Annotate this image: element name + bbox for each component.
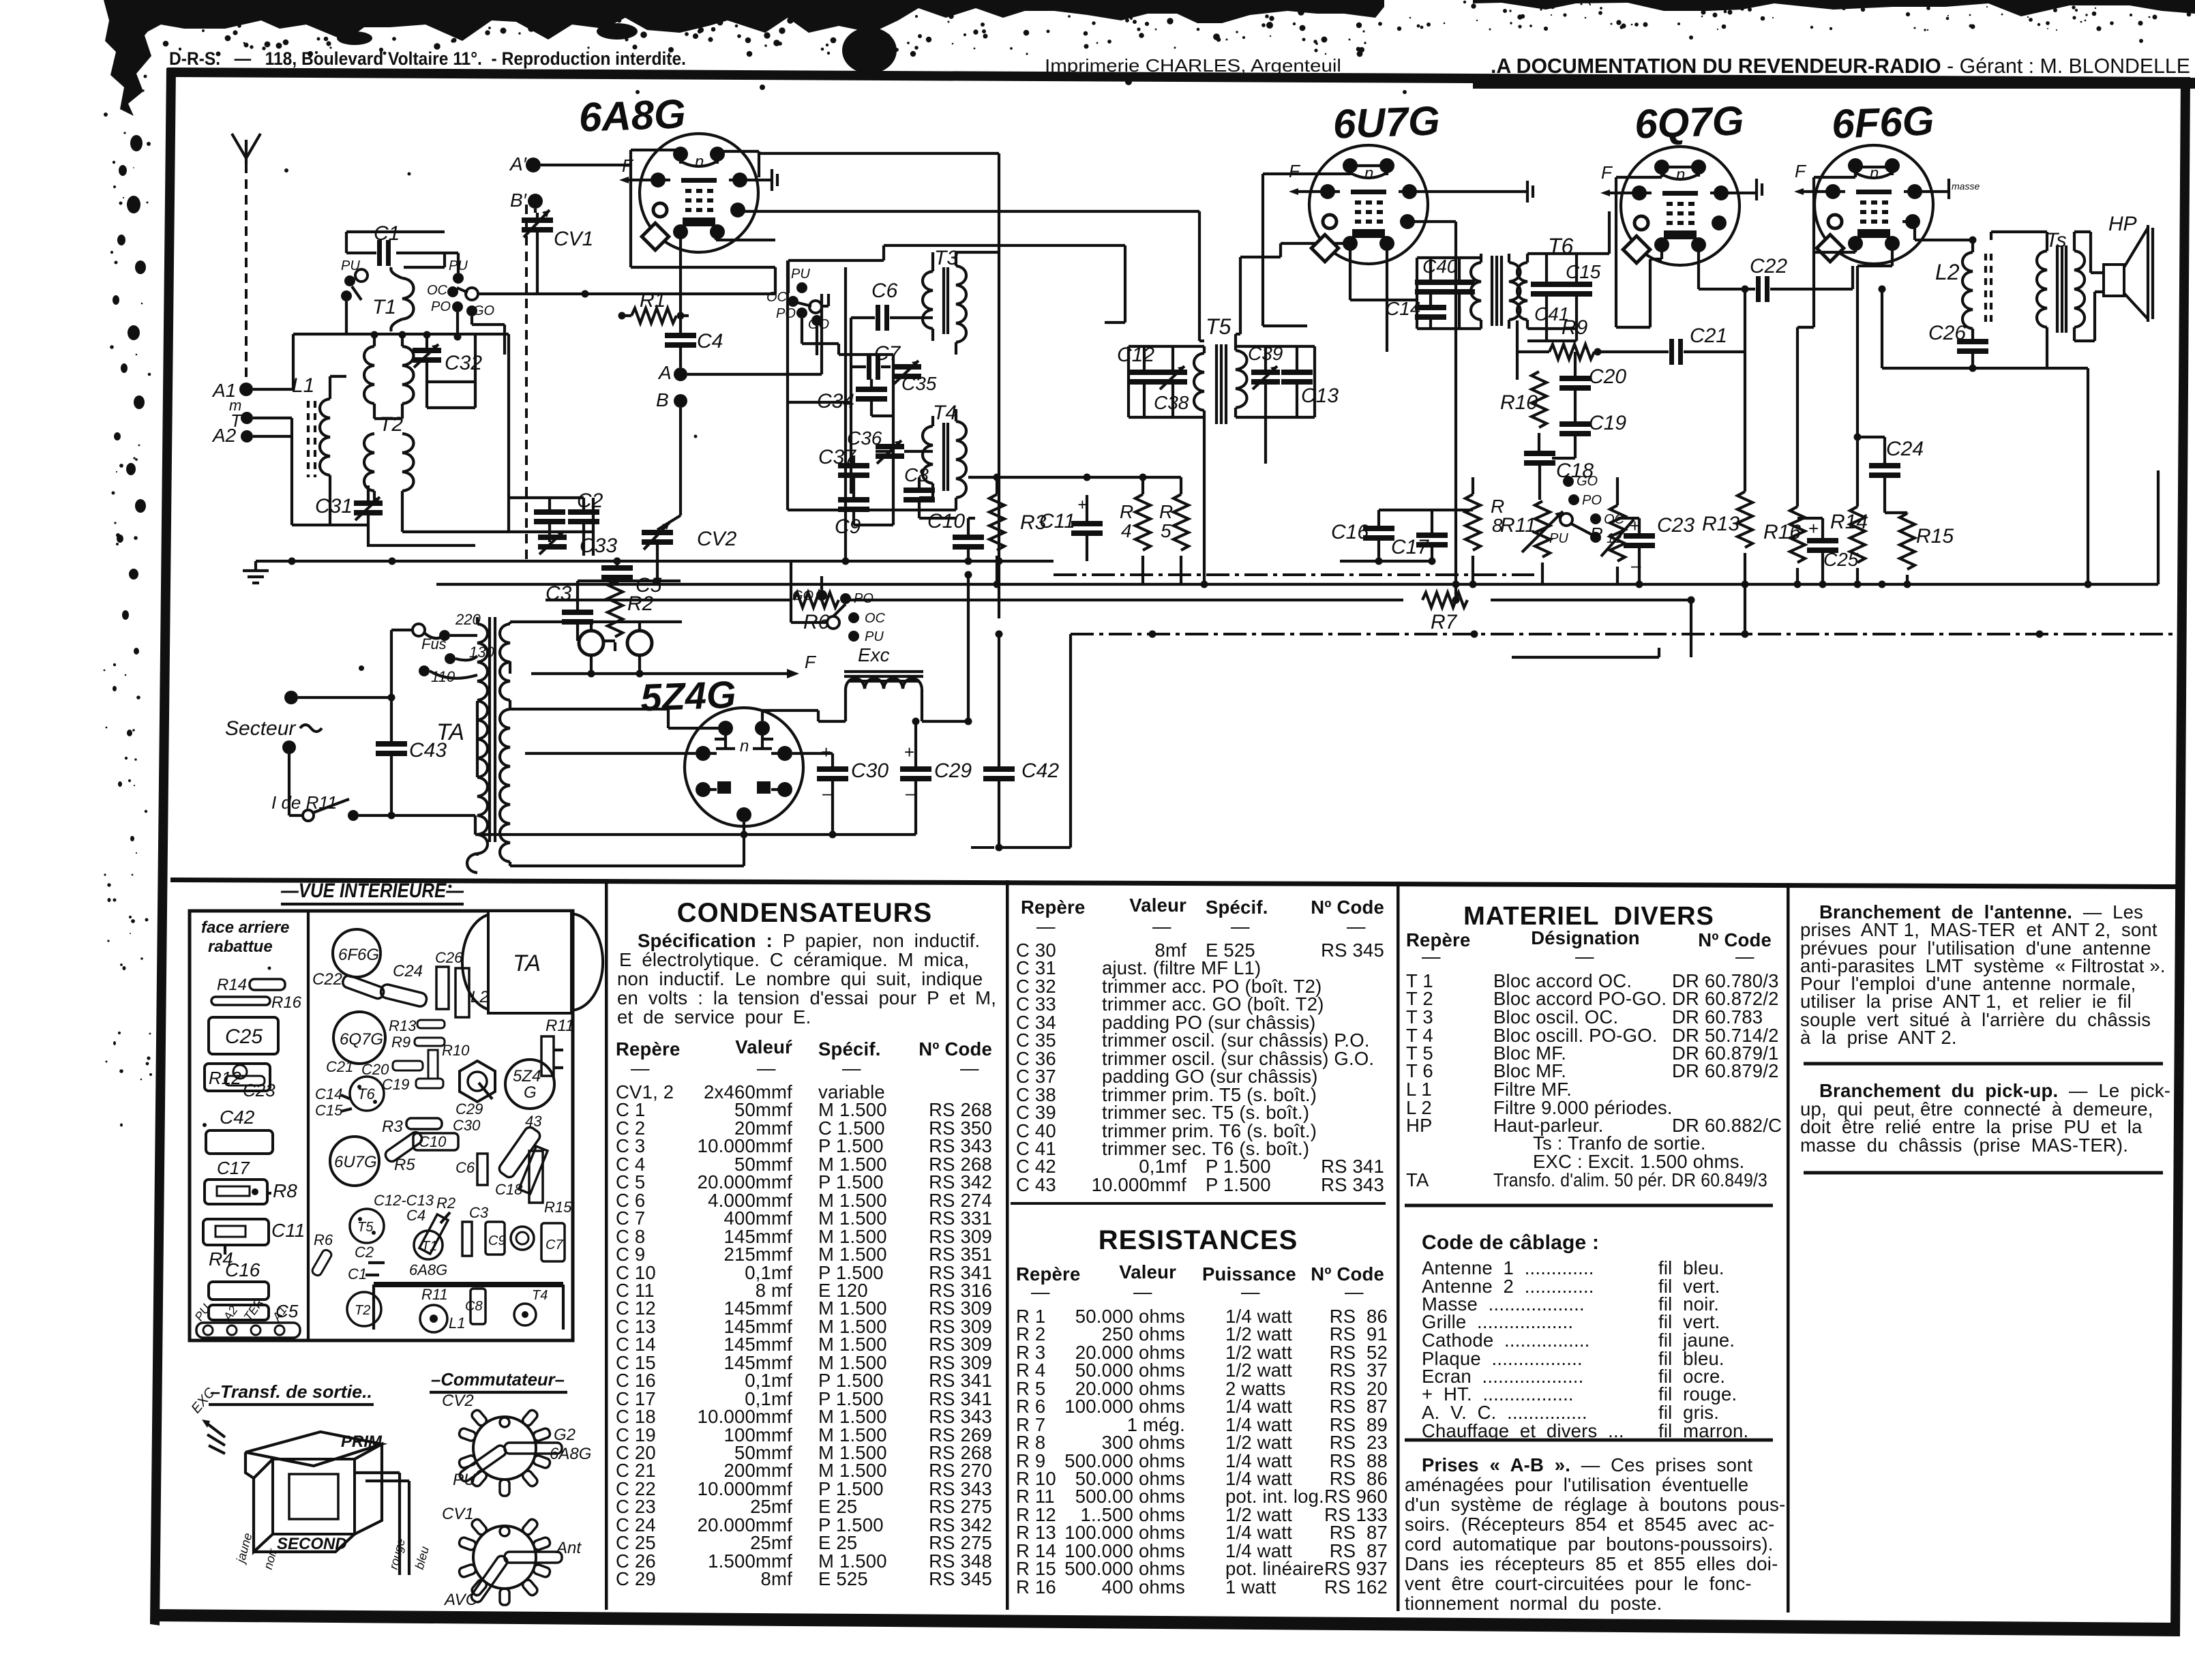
chassis C2 C1 — [348, 1244, 385, 1282]
svg-text:—: — — [757, 1057, 776, 1079]
svg-text:C24: C24 — [393, 962, 423, 980]
wire A1 to tuner — [253, 334, 355, 389]
svg-text:C2: C2 — [355, 1244, 374, 1261]
table C30-C43 — [1011, 895, 1388, 1597]
svg-text:—: — — [1347, 916, 1366, 937]
MF transformer T6 — [1471, 234, 1574, 329]
capacitor C1 — [346, 222, 445, 267]
transformer T1 — [372, 267, 414, 331]
bottom tie wires — [475, 833, 916, 836]
tube 5Z4G rectifier — [640, 673, 803, 826]
dash-dot HT rail lower — [1071, 633, 2175, 635]
svg-text:C8: C8 — [465, 1299, 483, 1314]
svg-text:Dans ies récepteurs 85 et: Dans ies récepteurs 85 et 855 elles doi- — [1405, 1553, 1778, 1574]
resistor R10 — [1500, 372, 1547, 453]
terminal B — [656, 389, 687, 410]
svg-text:R6: R6 — [314, 1231, 333, 1248]
capacitor C7 — [851, 342, 901, 380]
svg-text:AVC: AVC — [443, 1591, 478, 1609]
svg-text:vent être court-circuitées: vent être court-circuitées pour le fonc- — [1405, 1573, 1752, 1594]
resistor R1 — [618, 289, 689, 323]
svg-text:C 43: C 43 — [1016, 1174, 1056, 1195]
chassis T2 — [347, 1292, 381, 1326]
svg-text:C11: C11 — [271, 1220, 305, 1241]
resistor R5 — [1159, 477, 1189, 584]
wire top y225 to C5 drop — [759, 153, 999, 618]
chassis C22 — [312, 970, 385, 1000]
svg-text:C9: C9 — [488, 1233, 506, 1248]
wire L1 top tie — [318, 376, 368, 525]
svg-text:R 16: R 16 — [1016, 1576, 1056, 1597]
svg-text:43: 43 — [525, 1113, 542, 1130]
capacitor C8 — [904, 464, 935, 518]
svg-text:DR 60.879/2: DR 60.879/2 — [1672, 1060, 1779, 1081]
svg-text:10.000mmf: 10.000mmf — [1092, 1174, 1187, 1195]
svg-text:C30: C30 — [453, 1117, 481, 1134]
svg-text:–Commutateur–: –Commutateur– — [431, 1369, 565, 1390]
capacitor C2 — [534, 490, 603, 524]
svg-text:F: F — [1289, 161, 1301, 181]
svg-text:E 525: E 525 — [818, 1568, 868, 1589]
rear panel C16 — [209, 1259, 269, 1300]
transformer T3 — [923, 247, 966, 355]
chassis L2 — [456, 968, 489, 1017]
svg-text:TA: TA — [436, 719, 464, 745]
svg-text:—: — — [1735, 946, 1754, 967]
chassis C10 — [413, 1133, 458, 1150]
svg-text:C19: C19 — [382, 1076, 409, 1093]
title Commutateur — [430, 1369, 567, 1392]
svg-text:CV1: CV1 — [442, 1505, 474, 1523]
wires right bus — [1794, 581, 1802, 588]
svg-text:R11: R11 — [546, 1017, 574, 1035]
capacitor C40 — [1415, 256, 1475, 295]
output transformer Ts — [2037, 229, 2085, 368]
svg-text:OC: OC — [766, 290, 788, 305]
svg-text:6Q7G: 6Q7G — [1634, 97, 1744, 147]
svg-text:OC: OC — [865, 611, 886, 626]
svg-text:GO: GO — [1577, 474, 1598, 489]
trimmer C35 — [893, 361, 937, 394]
tube 6A8G — [578, 91, 758, 252]
svg-text:6F6G: 6F6G — [338, 946, 379, 964]
svg-text:R8: R8 — [273, 1180, 297, 1201]
svg-text:C16: C16 — [225, 1259, 260, 1280]
wires TA to 5Z4G — [510, 709, 744, 866]
right side vertical to bus — [1534, 368, 2158, 584]
loud speaker HP — [2074, 213, 2153, 341]
svg-text:—: — — [1036, 916, 1056, 937]
chassis R13 R9 — [389, 1017, 445, 1051]
svg-text:d'un système de réglage à: d'un système de réglage à boutons pous- — [1405, 1494, 1785, 1515]
title VUE INTERIEURE — [280, 880, 464, 904]
trimmer C31 — [315, 485, 475, 545]
chassis C29 C30 hex — [453, 1061, 495, 1134]
svg-text:R10: R10 — [442, 1042, 470, 1059]
capacitor C24 — [1854, 434, 1924, 513]
svg-text:G: G — [524, 1083, 537, 1102]
chassis R3 — [382, 1117, 442, 1136]
capacitor C9 — [835, 488, 893, 538]
svg-text:G2: G2 — [554, 1426, 576, 1444]
svg-text:P 1.500: P 1.500 — [1206, 1174, 1271, 1195]
table MATERIEL DIVERS — [1405, 902, 1785, 1614]
svg-text:PO: PO — [854, 591, 873, 606]
svg-text:E électrolytique. C céramique.: E électrolytique. C céramique. M mica, — [619, 949, 969, 970]
svg-text:—: — — [1345, 1281, 1364, 1302]
svg-text:T5: T5 — [357, 1220, 374, 1235]
svg-text:Nº Code: Nº Code — [919, 1038, 992, 1060]
svg-text:GO: GO — [792, 588, 813, 603]
svg-text:Valeuŕ: Valeuŕ — [735, 1036, 792, 1057]
rear panel C17 R8 — [205, 1158, 297, 1204]
6F6G heater bar — [1915, 179, 1980, 199]
svg-text:OC: OC — [427, 283, 448, 298]
rear panel R14 — [217, 976, 285, 994]
terminal m T — [229, 397, 253, 431]
svg-text:C15: C15 — [1566, 261, 1601, 282]
capacitor C4 — [665, 316, 723, 367]
svg-text:T4: T4 — [532, 1288, 548, 1303]
svg-text:R: R — [1120, 501, 1133, 522]
svg-text:+: + — [1808, 518, 1819, 539]
svg-text:6A8G: 6A8G — [409, 1261, 447, 1278]
capacitor C37 — [818, 446, 869, 488]
svg-text:CV2: CV2 — [442, 1392, 474, 1410]
capacitor C19 — [1552, 412, 1626, 458]
chassis C21 C20 C19 — [326, 1058, 443, 1093]
6F6G drops — [1797, 243, 1892, 395]
svg-text:6Q7G: 6Q7G — [340, 1030, 383, 1049]
rotary switch wafer CV1 — [442, 1505, 582, 1609]
svg-text:Transfo. d'alim. 50 pér. DR 60: Transfo. d'alim. 50 pér. DR 60.849/3 — [1493, 1169, 1767, 1190]
capacitor C29 — [900, 721, 972, 835]
svg-text:soirs. (Récepteurs 854 et: soirs. (Récepteurs 854 et 8545 avec ac- — [1405, 1514, 1774, 1535]
svg-text:non inductif. Le nombre qui su: non inductif. Le nombre qui suit, indiqu… — [617, 968, 983, 989]
svg-text:n: n — [740, 737, 749, 755]
svg-text:—: — — [1575, 946, 1594, 967]
svg-text:C 29: C 29 — [616, 1568, 656, 1589]
chassis divider — [307, 911, 310, 1340]
svg-text:C23: C23 — [243, 1080, 275, 1100]
wire SW-A box — [346, 232, 445, 334]
capacitor C14 — [1386, 258, 1481, 329]
svg-text:T4: T4 — [933, 402, 957, 424]
MF transformer T5 — [1194, 314, 1247, 424]
svg-text:Repère: Repère — [1021, 897, 1085, 918]
output transformer sketch — [188, 1385, 432, 1575]
svg-text:R: R — [1590, 524, 1603, 544]
svg-text:.A DOCUMENTATION DU REVENDEUR-: .A DOCUMENTATION DU REVENDEUR-RADIO - Gé… — [1491, 54, 2190, 78]
rear panel C5 — [209, 1301, 299, 1321]
capacitor C20 — [1559, 352, 1626, 422]
wire T/A2 junction — [253, 418, 318, 525]
svg-text:R11: R11 — [1500, 514, 1536, 537]
wires T6 secondary block — [1527, 211, 1609, 341]
svg-text:C42: C42 — [1021, 760, 1059, 782]
table CONDENSATEURS — [616, 898, 996, 1589]
resistor R3 — [989, 477, 1047, 584]
svg-text:PU: PU — [865, 629, 884, 644]
title Transf. de sortie — [209, 1381, 374, 1405]
chassis T4 — [514, 1288, 548, 1325]
svg-text:A′: A′ — [509, 153, 528, 175]
6U7G drops — [1350, 222, 1456, 600]
svg-text:à la prise ANT 2.: à la prise ANT 2. — [1800, 1027, 1957, 1048]
svg-text:C4: C4 — [697, 330, 723, 352]
chassis C43 rod — [497, 1113, 542, 1180]
svg-text:5Z4: 5Z4 — [513, 1067, 541, 1085]
capacitor C5 — [601, 561, 662, 597]
chassis R15 — [529, 1151, 572, 1216]
svg-text:C34: C34 — [817, 390, 854, 412]
chassis C9 — [486, 1222, 506, 1255]
svg-text:Spécification : P papier, non: Spécification : P papier, non inductif. — [638, 930, 980, 951]
svg-text:R1: R1 — [640, 289, 666, 312]
rear panel labels — [201, 918, 289, 956]
svg-text:—: — — [1031, 1281, 1050, 1302]
capacitor C43 — [376, 694, 447, 820]
switch S2 — [766, 267, 829, 332]
svg-text:HP: HP — [2108, 213, 2137, 235]
transformer T4 — [923, 402, 966, 510]
chassis L1 — [420, 1305, 465, 1332]
svg-text:SECOND: SECOND — [277, 1535, 347, 1553]
svg-text:–: – — [1631, 555, 1641, 575]
coil L1 with dashed core — [292, 374, 330, 525]
resistor R15 — [1885, 513, 1954, 588]
rear terminal strip — [192, 1295, 300, 1338]
svg-text:Ant: Ant — [555, 1539, 582, 1557]
capacitor C26 — [1928, 322, 1988, 368]
6Q7G box wires — [1616, 167, 1699, 327]
svg-text:L1: L1 — [449, 1315, 465, 1332]
svg-text:T1: T1 — [372, 296, 396, 318]
capacitor C10 — [927, 510, 984, 561]
svg-text:4: 4 — [1121, 520, 1132, 541]
chassis outer box — [190, 911, 573, 1340]
svg-text:rabattue: rabattue — [208, 937, 273, 956]
svg-text:C8: C8 — [904, 464, 929, 485]
svg-text:T5: T5 — [1206, 314, 1231, 339]
svg-text:400 ohms: 400 ohms — [1102, 1576, 1185, 1597]
svg-text:C29: C29 — [934, 760, 972, 782]
capacitor C21 — [1598, 325, 1745, 365]
svg-text:Valeur: Valeur — [1119, 1261, 1176, 1282]
svg-text:RS 162: RS 162 — [1324, 1576, 1388, 1597]
6Q7G heater bar — [1721, 179, 1762, 200]
svg-text:C24: C24 — [1886, 438, 1924, 460]
wire lever to grid line — [445, 253, 775, 294]
svg-text:C25: C25 — [225, 1025, 263, 1048]
chassis 6Q7G — [333, 1012, 385, 1064]
svg-text:CV2: CV2 — [697, 528, 737, 550]
rear panel R16 — [211, 993, 302, 1012]
svg-text:R13: R13 — [1702, 513, 1739, 535]
svg-text:PRIM: PRIM — [341, 1432, 383, 1451]
capacitor C30 — [817, 742, 889, 835]
capacitor C16 — [1331, 510, 1394, 561]
svg-text:C22: C22 — [1750, 255, 1787, 277]
resistor R11 potentiometer — [1500, 501, 1563, 584]
svg-text:T2: T2 — [379, 413, 403, 436]
resistor R9 — [1517, 316, 1602, 380]
trimmer C33 — [538, 531, 617, 557]
svg-text:L2: L2 — [1935, 260, 1960, 284]
dash-dot AVC rail upper — [1054, 573, 1534, 576]
svg-text:C6: C6 — [871, 280, 898, 302]
chassis TA box — [462, 911, 603, 1013]
secteur terminals — [225, 691, 322, 754]
svg-text:R3: R3 — [382, 1117, 403, 1136]
svg-text:C14: C14 — [315, 1085, 342, 1102]
chassis C6 — [456, 1154, 488, 1185]
resistor R2 — [608, 581, 654, 651]
svg-text:CV1: CV1 — [554, 228, 593, 250]
svg-text:R15: R15 — [544, 1199, 572, 1216]
svg-text:1 watt: 1 watt — [1225, 1576, 1276, 1597]
svg-text:R9: R9 — [391, 1034, 410, 1051]
chassis R2 C4 C3 — [406, 1195, 489, 1256]
wires C12/C38 box — [1129, 346, 1204, 417]
terminals A' B' — [509, 153, 541, 175]
wires C16/C17 top tie — [1340, 510, 1473, 561]
svg-text:Repère: Repère — [616, 1038, 680, 1060]
capacitor C25 — [1797, 518, 1859, 584]
svg-text:CONDENSATEURS: CONDENSATEURS — [677, 898, 933, 928]
wires secteur — [289, 697, 391, 815]
svg-text:F: F — [805, 652, 817, 672]
svg-text:C13: C13 — [1301, 385, 1339, 407]
wire 5Z4G top box to Exc — [762, 710, 846, 764]
svg-text:RS 345: RS 345 — [1321, 940, 1384, 961]
svg-text:–Transf. de sortie..: –Transf. de sortie.. — [210, 1381, 372, 1402]
svg-text:+: + — [821, 742, 831, 762]
6A8G box wires — [631, 150, 775, 294]
antenna mast — [232, 134, 260, 382]
svg-text:C10: C10 — [419, 1133, 447, 1150]
svg-text:PU: PU — [453, 1471, 476, 1489]
svg-text:R11: R11 — [421, 1286, 448, 1303]
svg-text:6U7G: 6U7G — [334, 1153, 377, 1171]
resistor R6 — [794, 592, 839, 633]
svg-text:B: B — [656, 389, 669, 410]
chassis C26 — [435, 949, 463, 1009]
wire A' right — [535, 165, 631, 213]
6A8G right heater bar — [740, 169, 777, 191]
svg-text:Secteur: Secteur — [225, 717, 296, 740]
svg-text:Nº Code: Nº Code — [1311, 897, 1384, 918]
6F6G F arrow — [1794, 161, 1826, 195]
svg-text:C30: C30 — [851, 760, 889, 782]
bus second — [436, 583, 1534, 586]
svg-text:aménagées pour l'utilisation: aménagées pour l'utilisation éventuelle — [1405, 1474, 1748, 1495]
wires C32 box — [355, 334, 509, 532]
6A8G left F arrow — [619, 155, 651, 183]
capacitor C18 — [1524, 451, 1594, 500]
6A8G top tie wires — [631, 150, 759, 177]
svg-text:C26: C26 — [435, 949, 463, 966]
svg-text:cord automatique par bouton: cord automatique par boutons-poussoirs). — [1405, 1533, 1774, 1555]
transformer T2 — [364, 335, 414, 532]
T6 secondary coil — [1517, 254, 1527, 329]
svg-text:C22: C22 — [312, 970, 342, 989]
svg-text:T2: T2 — [355, 1303, 370, 1318]
chassis C7 — [541, 1223, 565, 1261]
chassis R11 — [541, 1017, 574, 1076]
svg-text:masse: masse — [1952, 181, 1980, 192]
svg-text:C20: C20 — [1589, 365, 1626, 388]
svg-text:C33: C33 — [580, 535, 617, 557]
svg-text:–: – — [822, 783, 833, 803]
svg-text:I de R11: I de R11 — [271, 792, 337, 813]
resistor R13 — [1702, 286, 1752, 635]
chassis C18 — [495, 1146, 548, 1198]
svg-text:C4: C4 — [406, 1207, 425, 1224]
chassis R10 — [428, 1042, 470, 1079]
svg-text:+: + — [904, 742, 914, 762]
chassis C14 C15 — [315, 1085, 352, 1119]
svg-text:B′: B′ — [510, 190, 528, 211]
rear panel C25 — [209, 1017, 278, 1054]
wires C39/C13 box — [1236, 346, 1315, 417]
chassis 6A8G label — [409, 1261, 447, 1278]
ganged tuning dashed link — [525, 205, 528, 559]
coupling wire to C22 — [1699, 266, 1853, 289]
wires mid drops — [968, 477, 1181, 505]
svg-text:C31: C31 — [315, 495, 353, 517]
svg-text:8mf: 8mf — [761, 1568, 793, 1589]
svg-text:Exc: Exc — [858, 644, 890, 665]
svg-text:R15: R15 — [1916, 525, 1954, 547]
svg-text:RESISTANCES: RESISTANCES — [1099, 1225, 1298, 1255]
rail corner down — [1069, 634, 1072, 847]
svg-text:Prises « A-B ». — Ces pr: Prises « A-B ». — Ces prises sont — [1422, 1454, 1753, 1475]
svg-text:tionnement normal du poste.: tionnement normal du poste. — [1405, 1593, 1662, 1614]
chassis T1 — [414, 1231, 443, 1259]
chassis 6U7G — [330, 1137, 379, 1186]
long wire 6A8G plate to T5 — [740, 211, 1199, 341]
capacitor C13 — [1281, 370, 1339, 407]
terminal A2 — [211, 425, 253, 446]
chassis R6 — [311, 1231, 333, 1277]
6A8G cathode drop — [681, 232, 775, 316]
svg-text:C21: C21 — [326, 1058, 353, 1075]
wires T3/T4 block inner — [788, 252, 999, 525]
tube 6Q7G — [1621, 97, 1744, 265]
capacitor C15 — [1561, 261, 1601, 297]
chassis 73 double circle — [511, 1227, 534, 1250]
svg-text:PU: PU — [791, 267, 810, 282]
svg-text:—VUE INTERIEURE—: —VUE INTERIEURE— — [280, 880, 464, 902]
chassis tube 6F6G — [333, 929, 380, 977]
T5 leads — [1199, 243, 1347, 584]
switch S3 bottom — [792, 588, 886, 644]
6U7G top tie — [1350, 164, 1387, 167]
svg-text:—: — — [960, 1057, 979, 1079]
transformer TA — [436, 617, 510, 873]
svg-text:—: — — [842, 1057, 861, 1079]
svg-text:6U7G: 6U7G — [1332, 97, 1441, 147]
svg-text:5: 5 — [1161, 520, 1171, 541]
wire Ts to plate — [1991, 232, 2047, 240]
svg-text:HP: HP — [1406, 1115, 1433, 1136]
svg-text:L2: L2 — [471, 988, 489, 1006]
chassis R11b — [421, 1286, 448, 1303]
svg-text:C23: C23 — [1657, 514, 1694, 537]
svg-text:6A8G: 6A8G — [550, 1445, 591, 1463]
svg-text:C42: C42 — [220, 1107, 255, 1128]
